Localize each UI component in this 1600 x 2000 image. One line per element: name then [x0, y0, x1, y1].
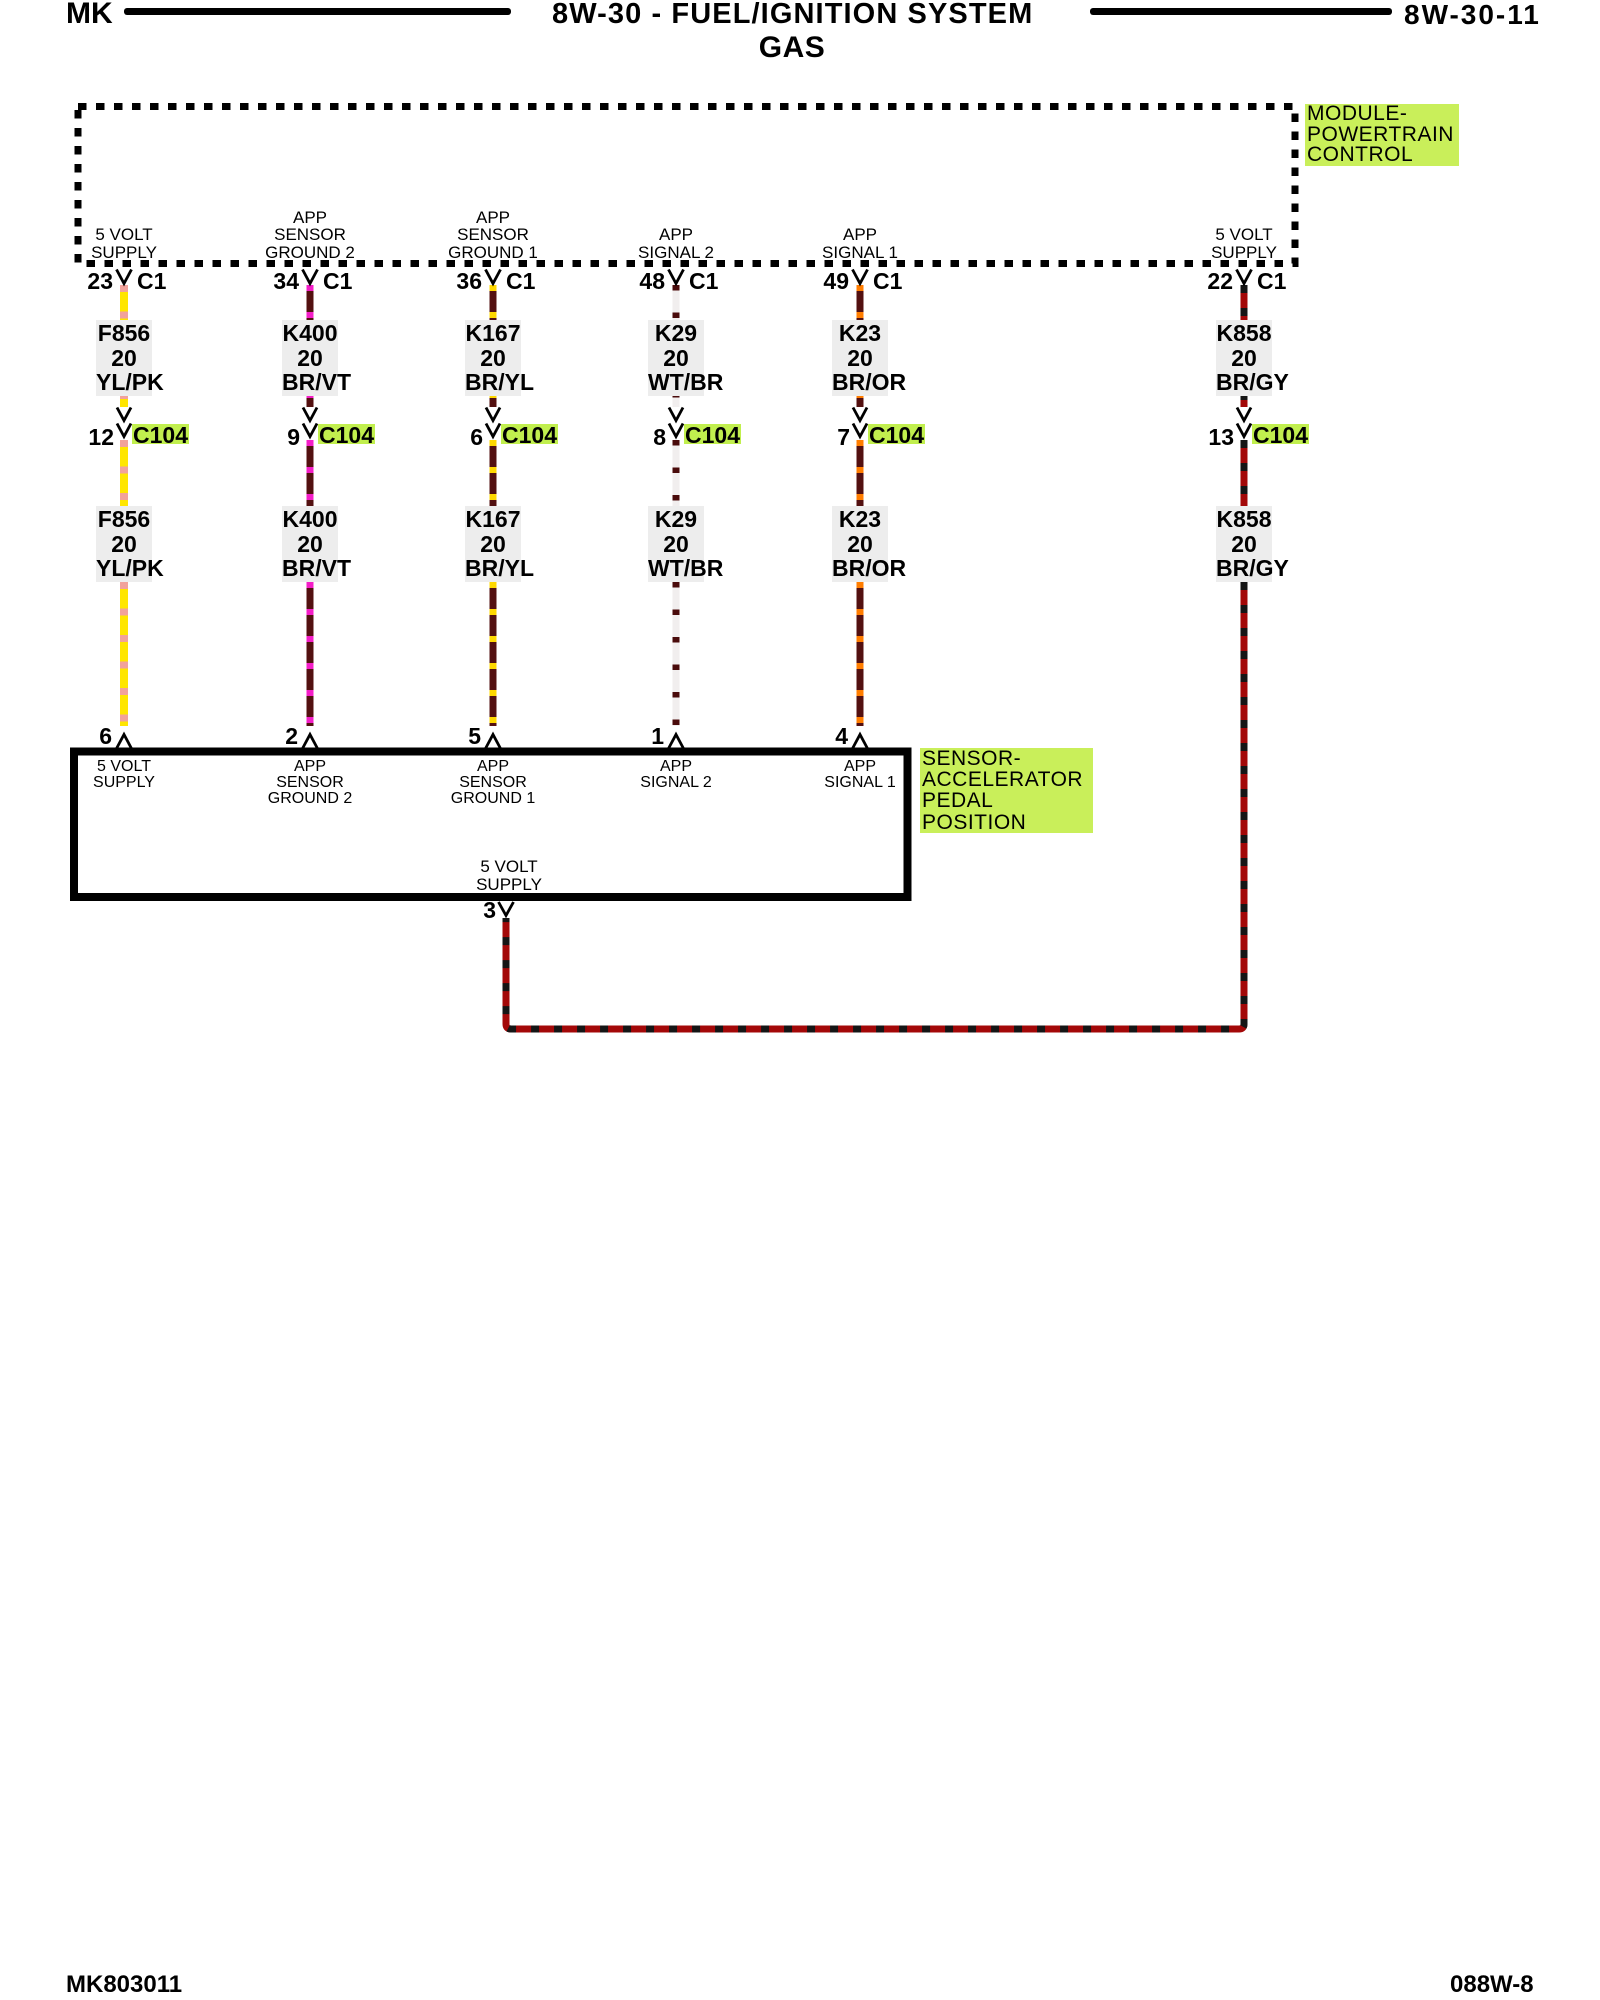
sensor pin number 2: [228, 726, 298, 747]
wire K23 segment label to sensor pin: [857, 582, 864, 726]
wire F856 segment C104 to label: [120, 440, 128, 507]
C104 pin number 13: [1164, 427, 1234, 448]
sensor pin 4 connector chevron: [853, 735, 868, 749]
header page number: [1404, 1, 1541, 28]
wire label K23 20 BR/OR (lower): [832, 506, 888, 582]
sensor pin 3 connector chevron: [499, 902, 514, 916]
wire label K858 20 BR/GY (lower): [1216, 506, 1272, 582]
sensor pin name APP SENSOR GROUND 1: [451, 759, 535, 808]
header MK: [66, 0, 113, 27]
wire K167 segment C104 to label: [490, 440, 497, 507]
wire K23 segment C104 to label: [857, 440, 864, 507]
sensor pin number 1: [594, 726, 664, 747]
sensor pin name 5 VOLT SUPPLY: [93, 759, 155, 791]
sensor pin name APP SIGNAL 2: [640, 759, 711, 791]
sensor pin 3 name 5 VOLT SUPPLY: [476, 858, 542, 895]
PCM pin name 5 VOLT SUPPLY: [91, 226, 157, 261]
wire label K167 20 BR/YL (lower): [465, 506, 521, 582]
header title: [552, 1, 1032, 28]
C104 pin number 7: [780, 427, 850, 448]
C104 pin number 6: [413, 427, 483, 448]
C104 pin 9 connector chevrons: [303, 408, 317, 421]
C104 pin 8 connector chevrons: [669, 408, 683, 421]
PCM pin name APP SENSOR GROUND 1: [448, 209, 538, 262]
module-powertrain control label: [1305, 104, 1459, 166]
wire K29 segment PCM pin to label: [673, 285, 680, 321]
connector name C104 (highlighted): [868, 424, 925, 444]
wire K167 segment label to sensor pin: [490, 582, 497, 726]
wire K858 segment PCM pin to label: [1241, 285, 1248, 321]
wire F856 segment label to sensor pin: [120, 582, 128, 726]
connector name C1: [506, 271, 535, 292]
PCM pin name APP SIGNAL 1: [822, 226, 898, 261]
wire label K400 20 BR/VT (upper): [282, 320, 338, 396]
connector name C104 (highlighted): [318, 424, 375, 444]
PCM pin name 5 VOLT SUPPLY: [1211, 226, 1277, 261]
PCM pin 34 connector chevron: [303, 270, 318, 284]
sensor pin number 5: [411, 726, 481, 747]
connector name C1: [137, 271, 166, 292]
header rule left: [124, 8, 511, 15]
connector name C1: [323, 271, 352, 292]
wire label K858 20 BR/GY (upper): [1216, 320, 1272, 396]
C104 pin 13 connector chevrons: [1237, 408, 1251, 421]
sensor pin 1 connector chevron: [669, 735, 684, 749]
wire F856 segment label to C104: [120, 392, 128, 407]
PCM pin number 49: [779, 271, 849, 292]
wire K400 segment PCM pin to label: [307, 285, 314, 321]
wire K400 segment C104 to label: [307, 440, 314, 507]
wire label K400 20 BR/VT (lower): [282, 506, 338, 582]
wire label K29 20 WT/BR (lower): [648, 506, 704, 582]
wire K858 run from label down, across bottom, up to sensor pin 3: [506, 582, 1244, 1029]
PCM pin number 22: [1163, 271, 1233, 292]
connector name C104 (highlighted): [684, 424, 741, 444]
C104 pin number 12: [44, 427, 114, 448]
C104 pin 7 connector chevrons: [853, 408, 867, 421]
C104 pin 6 connector chevrons: [486, 408, 500, 421]
wire K29 segment C104 to label: [673, 440, 680, 507]
connector name C104 (highlighted): [132, 424, 189, 444]
wire label K29 20 WT/BR (upper): [648, 320, 704, 396]
sensor pin number 3: [426, 900, 496, 921]
wire K400 segment label to sensor pin: [307, 582, 314, 726]
wire K23 segment label to C104: [857, 392, 864, 407]
wire K858 segment C104 to label: [1241, 440, 1248, 507]
footer sheet number: [1450, 1971, 1534, 1999]
PCM pin number 34: [229, 271, 299, 292]
footer drawing number: [66, 1971, 182, 1999]
wire F856 segment PCM pin to label: [120, 285, 128, 321]
connector name C104 (highlighted): [501, 424, 558, 444]
wire label F856 20 YL/PK (upper): [96, 320, 152, 396]
PCM pin number 36: [412, 271, 482, 292]
sensor-accelerator pedal position box: [74, 752, 908, 898]
C104 pin 12 connector chevrons: [117, 408, 131, 421]
wire K23 segment PCM pin to label: [857, 285, 864, 321]
sensor pin 6 connector chevron: [117, 735, 132, 749]
sensor pin name APP SIGNAL 1: [824, 759, 895, 791]
PCM pin 36 connector chevron: [486, 270, 501, 284]
connector name C104 (highlighted): [1252, 424, 1309, 444]
PCM pin 49 connector chevron: [853, 270, 868, 284]
wire K29 segment label to sensor pin: [673, 582, 680, 726]
PCM pin 48 connector chevron: [669, 270, 684, 284]
sensor pin 2 connector chevron: [303, 735, 318, 749]
PCM pin number 23: [43, 271, 113, 292]
wire K400 segment label to C104: [307, 392, 314, 407]
PCM pin name APP SIGNAL 2: [638, 226, 714, 261]
wire K167 segment PCM pin to label: [490, 285, 497, 321]
sensor pin number 4: [778, 726, 848, 747]
wire label K167 20 BR/YL (upper): [465, 320, 521, 396]
module-powertrain control box (dashed outline): [78, 107, 1295, 264]
wire K29 segment label to C104: [673, 392, 680, 407]
header GAS: [552, 34, 1032, 61]
header rule right: [1090, 8, 1392, 15]
wire label F856 20 YL/PK (lower): [96, 506, 152, 582]
sensor pin number 6: [42, 726, 112, 747]
sensor-accelerator pedal position label: [920, 748, 1093, 833]
wire K167 segment label to C104: [490, 392, 497, 407]
wire K858 segment label to C104: [1241, 392, 1248, 407]
C104 pin number 8: [596, 427, 666, 448]
connector name C1: [689, 271, 718, 292]
wire label K23 20 BR/OR (upper): [832, 320, 888, 396]
PCM pin 22 connector chevron: [1237, 270, 1252, 284]
PCM pin number 48: [595, 271, 665, 292]
PCM pin name APP SENSOR GROUND 2: [265, 209, 355, 262]
connector name C1: [1257, 271, 1286, 292]
sensor pin 5 connector chevron: [486, 735, 501, 749]
connector name C1: [873, 271, 902, 292]
sensor pin name APP SENSOR GROUND 2: [268, 759, 352, 808]
PCM pin 23 connector chevron: [117, 270, 132, 284]
C104 pin number 9: [230, 427, 300, 448]
